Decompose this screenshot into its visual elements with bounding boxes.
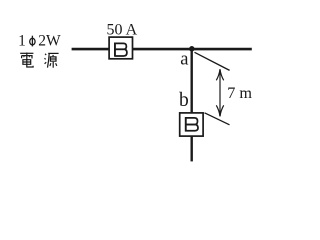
wire: below breaker B2 <box>190 136 192 161</box>
breaker B1 letter B <box>114 43 127 57</box>
svg-text:50 A: 50 A <box>107 21 138 38</box>
leader line from node a <box>195 52 230 70</box>
wire: source to breaker B1 <box>72 48 110 51</box>
dimension arrow 7 m shaft <box>219 69 221 116</box>
breaker B1 box <box>109 37 132 59</box>
phi symbol <box>30 36 35 47</box>
svg-text:b: b <box>179 90 189 111</box>
breaker B2 letter B <box>185 117 198 132</box>
dimension arrow upper head <box>216 69 223 80</box>
breaker B2 box <box>180 113 203 136</box>
svg-text:7 m: 7 m <box>227 84 252 102</box>
kanji GEN (source) <box>45 53 59 67</box>
dimension arrow lower head <box>216 105 223 116</box>
leader line from breaker B2 <box>205 113 230 125</box>
kanji DEN (electric) <box>20 53 33 68</box>
svg-text:2W: 2W <box>38 32 61 49</box>
node a junction dot <box>189 46 195 52</box>
wire: node a down to breaker B2 <box>190 49 192 112</box>
svg-text:1: 1 <box>18 32 26 49</box>
svg-text:a: a <box>180 50 188 70</box>
wire: breaker B1 to line end <box>133 48 252 51</box>
